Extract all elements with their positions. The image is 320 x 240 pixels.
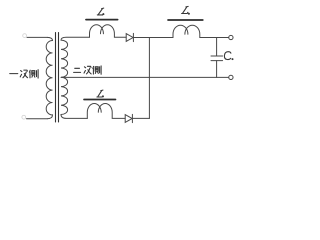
wire: diode D2 output to junction vertical: [132, 117, 149, 119]
faint terminal circle, primary top lead end: [23, 34, 27, 38]
output terminal (bottom): [229, 75, 233, 79]
diode D2 cathode bar: [131, 114, 133, 122]
faint terminal circle, primary bottom lead end: [22, 115, 26, 119]
output terminal (top): [229, 35, 233, 39]
wire: primary top lead: [27, 36, 47, 38]
wire: junction vertical (node A down to bottom diode): [148, 38, 150, 119]
inductor Ls (top) label: [97, 8, 104, 15]
inductor Ls (bottom) label: [97, 90, 104, 97]
capacitor Cb branch wire (top): [216, 38, 218, 57]
diode D2 (bottom): [125, 115, 132, 123]
label 一次側 (primary side): [10, 70, 38, 78]
inductor Ls (top) winding: [90, 25, 127, 38]
transformer core: [56, 33, 59, 123]
inductor Ls (bottom) winding: [87, 104, 125, 119]
capacitor Cb plates: [211, 56, 223, 61]
inductor Lb winding: [173, 25, 229, 37]
inductor Ls (top) core bar: [86, 19, 118, 21]
label 二次側 (secondary side): [74, 66, 102, 74]
wire: diode D1 output to Lb: [133, 37, 173, 39]
inductor Lb core bar: [168, 19, 203, 21]
transformer T1 secondary winding (center-tapped): [61, 37, 90, 118]
wire: primary bottom lead: [27, 118, 48, 120]
inductor Lb label: [182, 6, 190, 14]
wire: center tap rail to bottom output: [61, 76, 229, 78]
transformer T1 primary winding: [46, 37, 52, 118]
diode D1 cathode bar: [132, 33, 134, 41]
inductor Ls (bottom) core bar: [84, 99, 116, 101]
capacitor Cb branch wire (bottom): [216, 61, 218, 78]
diode D1 (top): [126, 34, 133, 42]
capacitor Cb label: [224, 52, 233, 60]
